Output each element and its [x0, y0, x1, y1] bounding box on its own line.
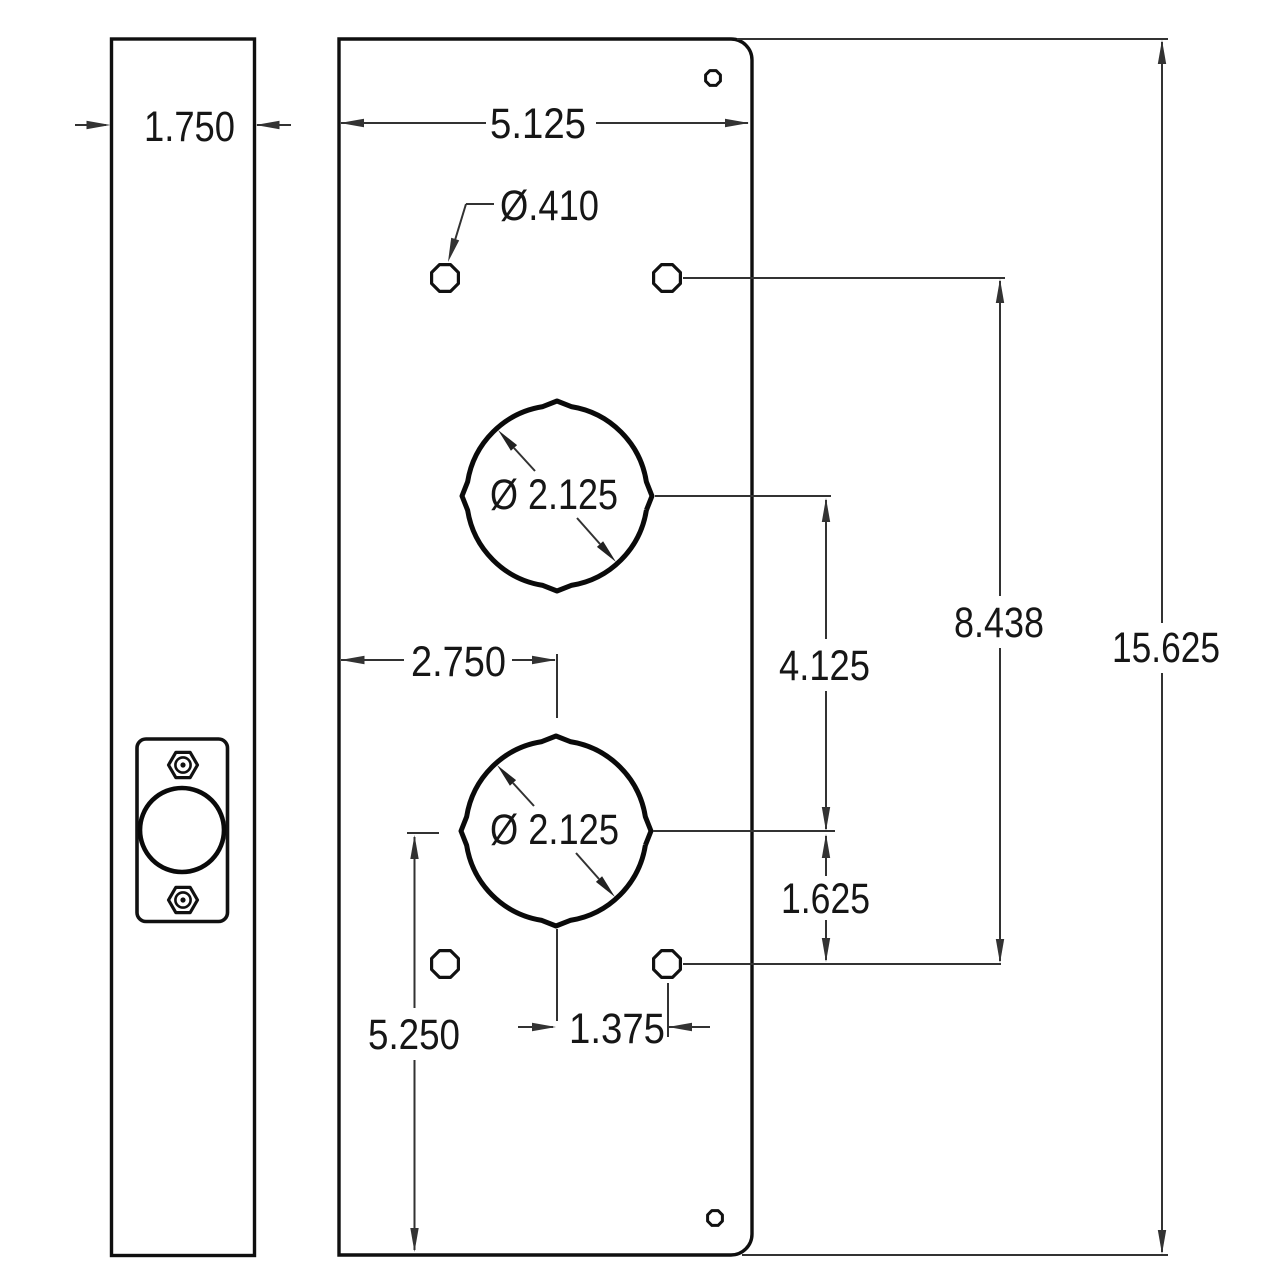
svg-text:1.750: 1.750 [144, 103, 235, 151]
svg-text:Ø.410: Ø.410 [500, 182, 599, 230]
svg-text:15.625: 15.625 [1112, 624, 1220, 672]
svg-text:Ø 2.125: Ø 2.125 [490, 471, 618, 519]
svg-text:Ø 2.125: Ø 2.125 [490, 806, 619, 854]
svg-text:1.375: 1.375 [569, 1005, 665, 1053]
svg-text:8.438: 8.438 [954, 599, 1044, 647]
svg-text:2.750: 2.750 [411, 638, 506, 686]
svg-text:5.250: 5.250 [368, 1011, 460, 1059]
svg-text:5.125: 5.125 [490, 100, 586, 148]
svg-text:4.125: 4.125 [779, 642, 870, 690]
svg-text:1.625: 1.625 [781, 875, 870, 923]
